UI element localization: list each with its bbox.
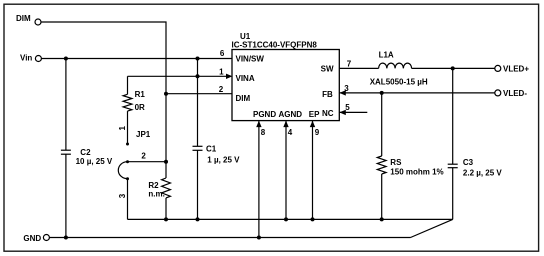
wire C3 branch upper — [452, 68, 454, 164]
svg-text:2.2 µ, 25 V: 2.2 µ, 25 V — [463, 169, 503, 178]
terminal VLED- — [495, 89, 528, 98]
junction FB/RS — [380, 91, 384, 95]
svg-text:IC-ST1CC40-VFQFPN8: IC-ST1CC40-VFQFPN8 — [232, 40, 318, 49]
svg-text:PGND: PGND — [253, 110, 276, 119]
junction DIM column/pin2 — [164, 92, 168, 96]
jumper JP1 — [118, 126, 151, 199]
wire inductor to VLED+ — [412, 67, 495, 69]
junction R2/bus — [164, 217, 168, 221]
svg-text:VIN/SW: VIN/SW — [236, 54, 265, 63]
wire JP1 pin2 to R2 column — [128, 161, 167, 163]
svg-text:VLED-: VLED- — [503, 89, 527, 98]
wire GND line — [49, 237, 410, 239]
wire RS to bus — [381, 174, 383, 219]
wire pin 9 EP to bus — [312, 121, 314, 220]
arrow into pin 1 — [226, 74, 233, 79]
wire C3 branch lower — [452, 168, 454, 220]
svg-text:1: 1 — [118, 126, 127, 131]
arrow into pin 4 — [283, 121, 288, 128]
wire R1 to JP1 pin 1 — [127, 111, 129, 143]
terminal DIM — [16, 14, 41, 25]
wire JP1 pin3 to ground bus — [127, 179, 129, 220]
resistor R2 — [148, 162, 170, 199]
capacitor C1 — [193, 144, 241, 164]
wire pin 1 VINA — [128, 75, 229, 77]
arrow into pin 8 — [256, 121, 261, 128]
resistor R1 — [123, 76, 145, 112]
op-amp U1 IC-ST1CC40-VFQFPN8 — [232, 32, 340, 121]
svg-text:5: 5 — [345, 103, 350, 112]
svg-text:DIM: DIM — [236, 94, 251, 103]
wire pin 5 NC stub — [339, 111, 367, 113]
svg-text:9: 9 — [315, 128, 320, 137]
junction Vin/C2 — [64, 57, 68, 61]
terminal VLED+ — [495, 64, 530, 73]
resistor RS — [377, 93, 443, 177]
arrow into pin 3 — [339, 90, 346, 95]
svg-text:2: 2 — [141, 152, 146, 161]
arrow into pin 5 — [339, 110, 346, 115]
svg-text:10 µ, 25 V: 10 µ, 25 V — [76, 157, 113, 166]
svg-text:1: 1 — [219, 67, 224, 76]
terminal Vin — [20, 54, 41, 63]
inductor L1A — [370, 51, 428, 87]
svg-text:Vin: Vin — [20, 54, 32, 63]
svg-text:AGND: AGND — [279, 110, 303, 119]
svg-text:EP: EP — [309, 110, 320, 119]
svg-text:JP1: JP1 — [136, 130, 151, 139]
wire Vin to pin 6 VIN/SW — [41, 58, 232, 60]
svg-text:n.m.: n.m. — [148, 190, 164, 199]
svg-text:C3: C3 — [463, 158, 474, 167]
svg-text:1 µ, 25 V: 1 µ, 25 V — [207, 155, 240, 164]
svg-text:6: 6 — [220, 49, 225, 58]
capacitor C3 — [448, 158, 503, 178]
svg-text:8: 8 — [261, 128, 266, 137]
wire pin 2 DIM — [166, 93, 232, 95]
wire GND diagonal to bus — [411, 219, 453, 237]
wire R2 to ground bus — [165, 198, 167, 220]
wire DIM to DIM pin column — [41, 22, 166, 94]
svg-text:GND: GND — [23, 234, 41, 243]
svg-text:VLED+: VLED+ — [503, 64, 529, 73]
terminal GND — [23, 234, 49, 243]
svg-text:0R: 0R — [135, 103, 145, 112]
junction VINA/C1 column — [196, 74, 200, 78]
svg-text:3: 3 — [118, 193, 127, 198]
wire C1 branch upper — [197, 59, 199, 147]
wire C2 branch upper — [65, 59, 67, 151]
svg-text:2: 2 — [219, 85, 224, 94]
svg-text:RS: RS — [390, 158, 402, 167]
svg-text:C1: C1 — [206, 144, 217, 153]
wire pin 8 PGND to GND line — [258, 121, 260, 238]
svg-text:R1: R1 — [135, 90, 146, 99]
svg-text:L1A: L1A — [379, 51, 394, 60]
svg-text:XAL5050-15 µH: XAL5050-15 µH — [370, 78, 428, 87]
svg-text:7: 7 — [347, 59, 352, 68]
svg-text:DIM: DIM — [16, 14, 31, 23]
svg-text:150 mohm 1%: 150 mohm 1% — [390, 168, 443, 177]
svg-text:4: 4 — [288, 128, 293, 137]
svg-text:FB: FB — [322, 90, 333, 99]
arrow into pin 9 — [310, 121, 315, 128]
wire C2 branch lower — [65, 154, 67, 237]
junction Vin/C1 column — [196, 57, 200, 61]
junction L1A/C3 — [451, 66, 455, 70]
junction RS/bus — [380, 217, 384, 221]
svg-text:SW: SW — [321, 65, 334, 74]
junction GND/C2 — [64, 236, 68, 240]
wire pin 4 AGND to bus — [285, 121, 287, 220]
capacitor C2 — [61, 148, 113, 166]
junction C1/bus — [196, 217, 200, 221]
junction pin9/bus — [311, 217, 315, 221]
junction pin8/GND line — [257, 236, 261, 240]
wire pin 7 SW to inductor — [339, 67, 378, 69]
wire pin 3 FB to VLED- — [339, 92, 495, 94]
wire DIM column to JP1 pin2 row — [165, 94, 167, 162]
svg-text:NC: NC — [322, 109, 334, 118]
ground bus wire — [128, 218, 453, 220]
svg-text:VINA: VINA — [236, 74, 255, 83]
svg-text:R2: R2 — [148, 181, 159, 190]
junction JP1/R2 — [164, 160, 168, 164]
junction pin4/bus — [284, 217, 288, 221]
wire C1 branch lower — [197, 150, 199, 219]
